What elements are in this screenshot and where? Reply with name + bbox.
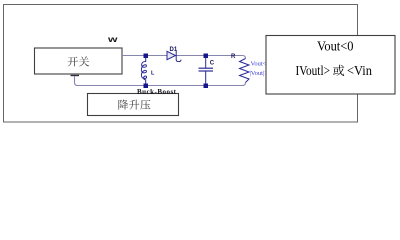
- svg-text:C: C: [210, 61, 215, 67]
- box 降升压 (buck-boost block): [88, 94, 179, 116]
- capacitor C: [205, 58, 207, 69]
- inductor L coil: [141, 58, 146, 84]
- svg-text:Vout<0: Vout<0: [317, 40, 354, 55]
- node junction bottom-left: [144, 84, 149, 89]
- text 或: [333, 65, 344, 76]
- node junction bottom-cap: [204, 84, 209, 89]
- svg-text:D1: D1: [170, 47, 178, 53]
- svg-text:w: w: [107, 34, 118, 44]
- node junction top-left: [144, 54, 149, 59]
- svg-text:|Vout|>: |Vout|>: [250, 70, 269, 77]
- svg-text:<Vin: <Vin: [347, 64, 372, 79]
- wire bottom rail: [75, 76, 246, 86]
- wire top rail: [122, 56, 246, 59]
- node junction top-cap: [204, 54, 209, 59]
- outer frame: [4, 5, 358, 123]
- label 降升压: [118, 100, 128, 110]
- diode D1: [167, 51, 176, 59]
- resistor R zigzag: [240, 59, 250, 83]
- box Vout annotation: [266, 36, 395, 95]
- box 开关 (switch block): [35, 48, 123, 74]
- svg-text:Buck-Boost: Buck-Boost: [137, 88, 177, 96]
- svg-text:R: R: [231, 54, 236, 60]
- label 开关: [68, 57, 78, 67]
- wire switch bottom stub: [71, 75, 80, 77]
- svg-text:IVoutl>: IVoutl>: [296, 64, 331, 79]
